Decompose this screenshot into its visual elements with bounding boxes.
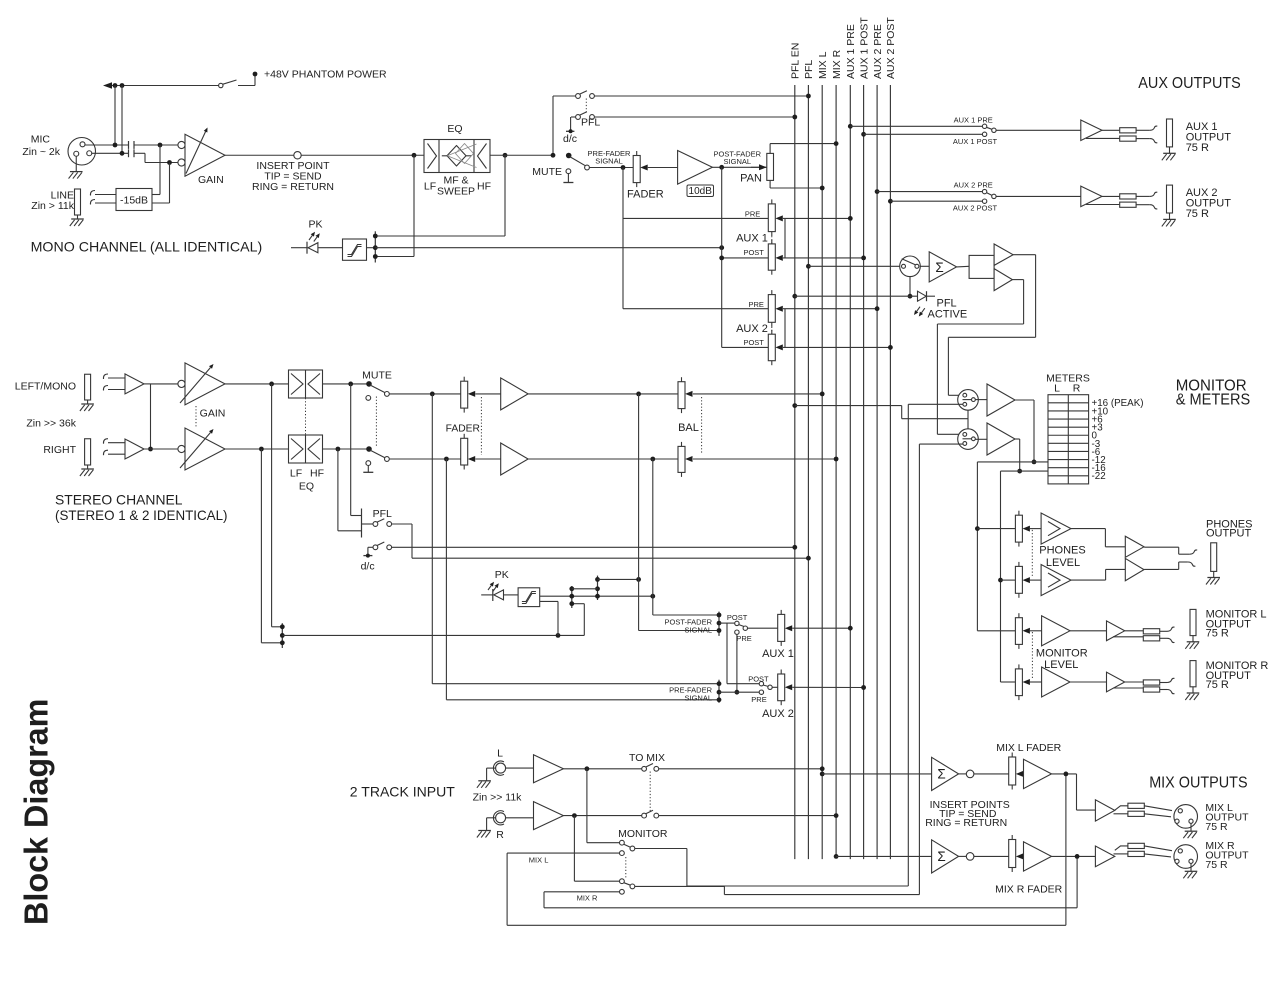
svg-text:ACTIVE: ACTIVE [928,309,968,321]
svg-text:LEFT/MONO: LEFT/MONO [15,381,76,393]
svg-text:75 R: 75 R [1186,142,1209,154]
svg-text:Zin > 11k: Zin > 11k [31,200,74,212]
svg-text:d/c: d/c [563,133,577,145]
svg-text:HF: HF [477,181,491,193]
svg-text:PFL: PFL [581,117,600,129]
svg-text:10dB: 10dB [689,186,713,197]
svg-text:d/c: d/c [361,561,375,573]
svg-text:Σ: Σ [935,260,943,275]
svg-text:2 TRACK INPUT: 2 TRACK INPUT [350,784,455,800]
svg-text:(STEREO 1 & 2 IDENTICAL): (STEREO 1 & 2 IDENTICAL) [55,507,228,523]
svg-text:Zin ~ 2k: Zin ~ 2k [22,146,60,158]
svg-text:METERS: METERS [1046,373,1090,385]
svg-text:Σ: Σ [937,767,945,782]
svg-text:BAL: BAL [678,422,699,434]
svg-text:PK: PK [495,569,509,581]
svg-text:POST: POST [743,338,764,347]
svg-text:POST: POST [727,613,748,622]
svg-text:AUX 1: AUX 1 [736,233,768,245]
svg-text:SWEEP: SWEEP [437,186,475,198]
svg-text:-22: -22 [1092,471,1106,482]
svg-text:EQ: EQ [447,123,462,135]
svg-text:AUX 2 PRE: AUX 2 PRE [872,24,884,79]
svg-text:Zin >> 36k: Zin >> 36k [26,418,76,430]
svg-text:75 R: 75 R [1186,208,1209,220]
svg-text:STEREO CHANNEL: STEREO CHANNEL [55,492,183,508]
svg-text:AUX 2: AUX 2 [762,708,794,720]
svg-text:Σ: Σ [937,849,945,864]
svg-text:75 R: 75 R [1205,821,1228,833]
svg-text:+48V PHANTOM POWER: +48V PHANTOM POWER [264,69,387,81]
svg-text:PHONES: PHONES [1039,545,1085,557]
svg-text:L: L [1054,383,1060,395]
svg-text:MIX L FADER: MIX L FADER [996,742,1061,754]
svg-text:AUX 1 PRE: AUX 1 PRE [954,115,993,124]
svg-text:SIGNAL: SIGNAL [595,157,623,166]
svg-text:LF: LF [424,181,436,193]
svg-text:POST: POST [748,674,769,683]
svg-text:PFL: PFL [803,60,815,79]
svg-text:RING = RETURN: RING = RETURN [252,181,334,193]
svg-text:PFL EN: PFL EN [790,43,802,79]
svg-text:AUX 2: AUX 2 [736,323,768,335]
svg-text:-15dB: -15dB [120,195,148,207]
svg-text:PAN: PAN [740,173,762,185]
svg-text:OUTPUT: OUTPUT [1206,527,1252,539]
svg-text:AUX OUTPUTS: AUX OUTPUTS [1138,75,1241,92]
svg-text:MIX R: MIX R [831,49,843,79]
svg-text:PRE: PRE [745,210,760,219]
svg-text:R: R [496,829,504,841]
svg-text:75 R: 75 R [1206,628,1229,640]
svg-text:MONITOR: MONITOR [618,828,668,840]
svg-text:MUTE: MUTE [362,370,392,382]
svg-text:LEVEL: LEVEL [1044,659,1078,671]
svg-text:EQ: EQ [299,481,314,493]
svg-text:PK: PK [308,219,322,231]
svg-text:FADER: FADER [627,189,664,201]
svg-text:75 R: 75 R [1206,679,1229,691]
svg-text:AUX 2 POST: AUX 2 POST [953,204,998,213]
svg-text:MIX OUTPUTS: MIX OUTPUTS [1149,775,1247,792]
svg-text:MONO CHANNEL (ALL IDENTICAL): MONO CHANNEL (ALL IDENTICAL) [31,239,263,255]
svg-text:GAIN: GAIN [200,408,226,420]
svg-text:POST: POST [743,248,764,257]
svg-text:AUX 1 PRE: AUX 1 PRE [845,24,857,79]
svg-text:GAIN: GAIN [198,174,224,186]
svg-text:AUX 2 PRE: AUX 2 PRE [954,181,993,190]
svg-text:L: L [497,748,503,760]
svg-text:MUTE: MUTE [532,166,562,178]
svg-text:TO MIX: TO MIX [629,752,665,764]
svg-text:SIGNAL: SIGNAL [684,626,712,635]
svg-text:PRE: PRE [751,695,766,704]
svg-text:FADER: FADER [446,423,480,434]
svg-text:LF: LF [290,468,302,480]
svg-text:MIC: MIC [31,134,51,146]
svg-text:AUX 1 POST: AUX 1 POST [953,137,998,146]
svg-text:HF: HF [310,468,324,480]
svg-text:75 R: 75 R [1205,859,1228,871]
svg-text:SIGNAL: SIGNAL [684,694,712,703]
svg-text:MIX L: MIX L [529,856,549,865]
svg-text:SIGNAL: SIGNAL [724,157,752,166]
svg-text:PRE: PRE [748,300,763,309]
svg-text:AUX 2 POST: AUX 2 POST [885,17,897,79]
svg-text:PRE: PRE [736,634,751,643]
svg-text:AUX 1 POST: AUX 1 POST [858,17,870,79]
svg-text:MONITOR: MONITOR [1036,647,1088,659]
svg-text:PFL: PFL [373,508,392,520]
svg-text:MIX R: MIX R [577,894,598,903]
svg-text:AUX 1: AUX 1 [762,648,794,660]
svg-text:MIX L: MIX L [817,51,829,79]
svg-text:Zin >> 11k: Zin >> 11k [473,792,523,804]
svg-text:& METERS: & METERS [1176,392,1251,409]
svg-text:Block Diagram: Block Diagram [17,699,54,925]
svg-text:RING = RETURN: RING = RETURN [925,817,1007,829]
svg-text:R: R [1073,383,1081,395]
svg-text:RIGHT: RIGHT [43,444,76,456]
svg-text:MIX R FADER: MIX R FADER [995,884,1063,896]
svg-text:LEVEL: LEVEL [1046,557,1080,569]
